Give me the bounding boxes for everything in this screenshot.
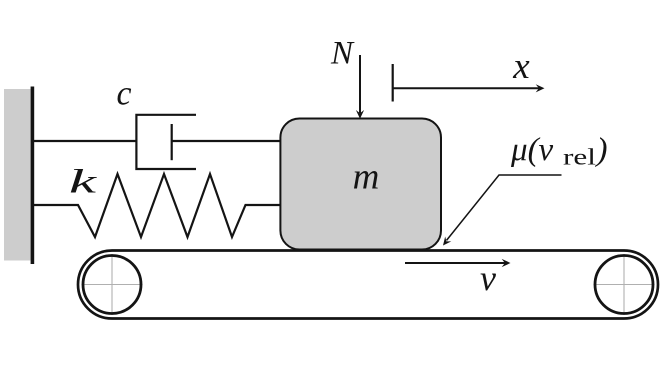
svg-text:m: m: [353, 157, 380, 198]
svg-text:k: k: [69, 164, 98, 201]
svg-text:rel: rel: [563, 145, 596, 170]
svg-text:N: N: [330, 36, 355, 72]
svg-text:c: c: [117, 74, 132, 113]
svg-text:v: v: [480, 258, 496, 298]
svg-text:): ): [595, 132, 608, 168]
svg-text:μ(v: μ(v: [510, 132, 554, 168]
svg-text:x: x: [512, 46, 530, 87]
